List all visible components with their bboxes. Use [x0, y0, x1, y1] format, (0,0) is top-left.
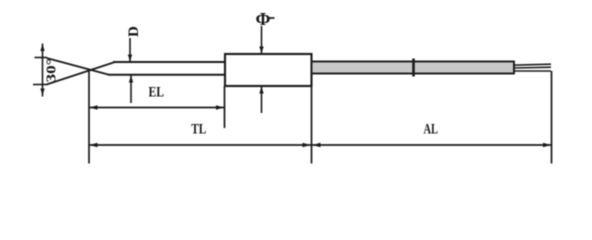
label EL — [148, 85, 164, 101]
svg-text:AL: AL — [423, 122, 438, 138]
svg-text:30°: 30° — [45, 59, 60, 83]
lead wire 3 — [513, 70, 551, 72]
label TL — [191, 122, 206, 138]
probe sheath bottom edge — [108, 74, 226, 76]
angle dimension line 30deg — [40, 44, 44, 97]
extension line EL right — [224, 86, 226, 128]
diameter dimension Phi upper arrow — [259, 26, 263, 54]
label D (rotated) — [126, 26, 142, 37]
angle dimension top tick — [35, 57, 48, 59]
extension line right end — [551, 71, 553, 164]
probe sheath top edge — [113, 61, 226, 63]
dimension line EL — [89, 105, 225, 109]
diameter dimension D lower arrow — [129, 76, 133, 104]
svg-text:D: D — [126, 26, 142, 37]
label AL — [423, 122, 438, 138]
svg-text:EL: EL — [148, 85, 164, 101]
diameter dimension Phi lower arrow — [259, 87, 263, 114]
cable joint tick — [412, 59, 415, 77]
probe tip cone lower edge (extended left to angle ticks) — [47, 58, 110, 75]
lead wire 1 — [513, 64, 551, 65]
transition block — [225, 54, 312, 86]
label 30deg (rotated) — [45, 59, 60, 83]
angle dimension bottom tick — [33, 84, 47, 86]
extension line left (tip) — [88, 71, 90, 164]
dimension line TL — [89, 143, 311, 147]
extension line center (block right) — [311, 86, 313, 164]
dimension line AL — [312, 143, 552, 147]
probe tip cone upper edge (extended left to angle ticks) — [47, 62, 116, 85]
cable — [312, 62, 515, 74]
label Phi — [256, 9, 275, 29]
svg-text:TL: TL — [191, 122, 206, 138]
svg-text:Φ: Φ — [256, 9, 271, 29]
diameter dimension D upper arrow — [128, 38, 132, 62]
lead wire 2 — [513, 66, 551, 69]
